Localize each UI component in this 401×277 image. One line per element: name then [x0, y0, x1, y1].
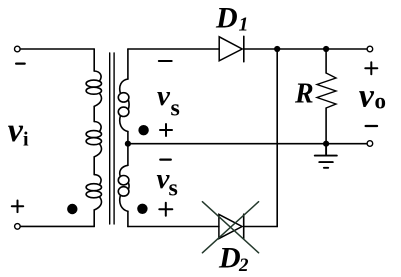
plus sign vs upper	[160, 124, 172, 136]
svg-text:v: v	[359, 78, 375, 115]
diode D1	[219, 36, 244, 61]
plus sign vi bottom	[12, 201, 23, 213]
ground	[315, 144, 337, 168]
svg-text:v: v	[8, 112, 24, 149]
svg-text:2: 2	[238, 255, 249, 276]
svg-text:D: D	[218, 242, 241, 275]
wire secondary bottom lead	[127, 211, 129, 226]
svg-text:R: R	[294, 78, 314, 109]
inductor primary coil cluster A	[86, 71, 101, 106]
wire primary bottom lead	[93, 210, 95, 227]
svg-text:o: o	[375, 89, 387, 114]
svg-text:i: i	[23, 129, 29, 151]
wire top rail secondary to D1	[128, 48, 219, 50]
junction dot center tap	[125, 141, 131, 147]
wire top-left to primary	[20, 48, 94, 50]
cross-out X over D2	[202, 202, 258, 253]
wire bottom-left	[20, 225, 94, 227]
wire primary mid gap 2	[93, 157, 95, 175]
wire primary mid gap 1	[93, 106, 95, 121]
junction dot R top	[323, 46, 329, 52]
terminal top-right output	[367, 46, 373, 52]
terminal bottom-right output	[367, 141, 373, 147]
polarity dot primary	[67, 204, 77, 214]
inductor primary coil cluster B	[86, 122, 101, 157]
svg-text:s: s	[169, 176, 178, 202]
wire cathode bus vertical	[276, 49, 278, 227]
minus sign vi top	[16, 62, 25, 64]
wire secondary center to lower winding	[127, 144, 129, 166]
wire D2 cathode to bus	[244, 226, 278, 228]
wire primary top lead	[93, 49, 95, 71]
terminal top-left input	[14, 46, 20, 52]
minus sign vs lower	[160, 159, 171, 161]
plus sign vo	[365, 62, 377, 74]
minus sign vo	[366, 125, 378, 127]
wire secondary to center tap	[127, 132, 129, 144]
wire D1 cathode to output node	[244, 48, 367, 50]
svg-text:D: D	[215, 2, 238, 35]
terminal bottom-left input	[15, 224, 21, 230]
wire center tap rail	[128, 143, 367, 145]
svg-text:s: s	[171, 96, 180, 122]
plus sign vs lower	[159, 203, 172, 216]
resistor R	[317, 49, 336, 144]
inductor secondary lower winding	[118, 165, 129, 211]
polarity dot secondary lower	[137, 204, 147, 214]
polarity dot secondary upper	[138, 125, 148, 135]
transformer core	[109, 53, 111, 224]
inductor primary coil cluster C	[86, 175, 101, 210]
svg-text:v: v	[157, 80, 171, 112]
diode D2	[219, 214, 244, 239]
inductor secondary upper winding	[118, 79, 129, 132]
wire D2 anode from secondary	[128, 226, 219, 228]
wire secondary top lead	[127, 49, 129, 79]
svg-text:1: 1	[239, 13, 249, 35]
minus sign vs upper	[159, 60, 172, 62]
junction dot ground node	[323, 141, 329, 147]
junction dot D1 branch	[274, 46, 280, 52]
